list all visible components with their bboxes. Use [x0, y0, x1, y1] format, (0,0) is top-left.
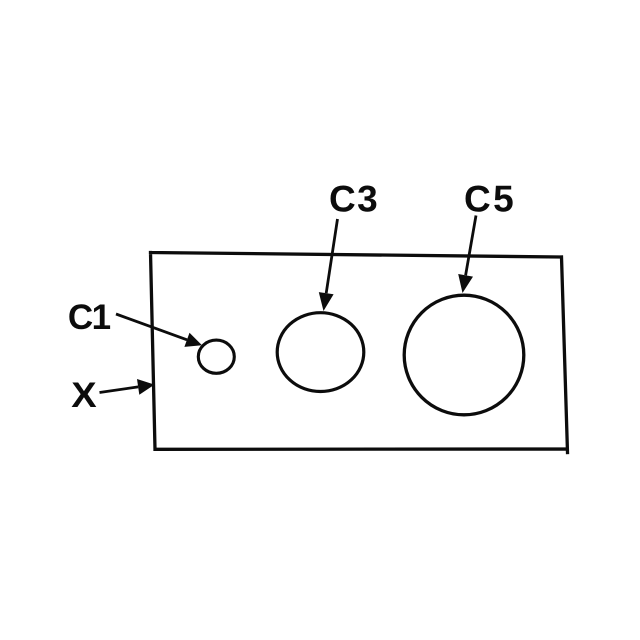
svg-text:X: X [71, 376, 97, 415]
leader arrow X [100, 379, 155, 395]
label C1 [68, 298, 111, 337]
svg-text:C5: C5 [464, 178, 516, 219]
svg-text:C3: C3 [329, 178, 379, 219]
circle C5 [404, 295, 524, 415]
leader arrow C5 [458, 216, 476, 294]
circle C1 [198, 340, 234, 373]
plate X (rectangular outline) [151, 253, 568, 453]
circle C3 [277, 313, 364, 392]
leader arrow C1 [116, 314, 202, 347]
label X [71, 376, 97, 415]
label C5 [464, 178, 516, 219]
svg-text:C1: C1 [68, 298, 111, 337]
leader arrow C3 [319, 219, 338, 311]
label C3 [329, 178, 379, 219]
